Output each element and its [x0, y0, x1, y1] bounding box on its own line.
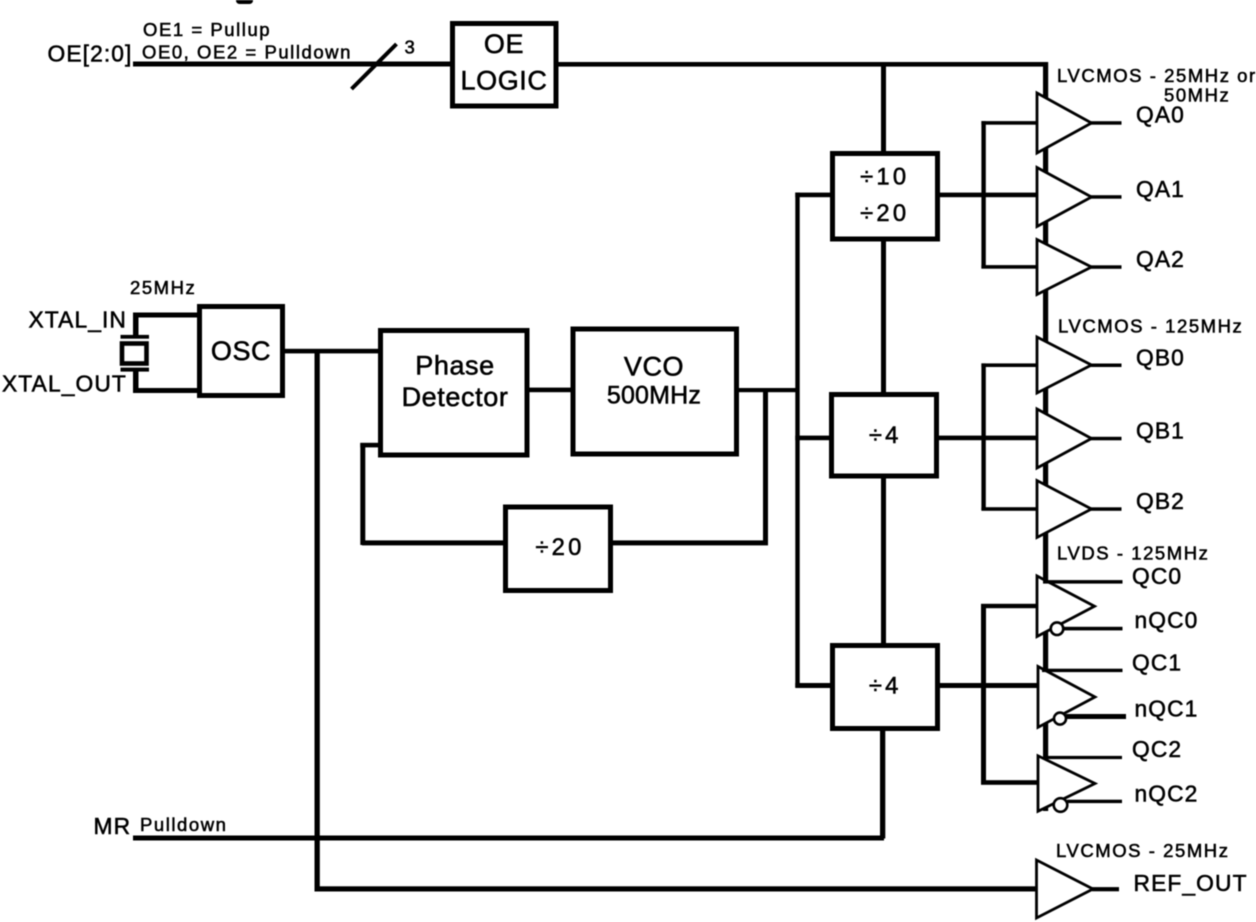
svg-text:XTAL_IN: XTAL_IN	[29, 307, 128, 333]
wire XTAL_IN to OSC	[133, 313, 199, 318]
wire enable vertical to output buffers	[1043, 62, 1048, 811]
svg-text:QC2: QC2	[1132, 736, 1182, 762]
wire MR input	[133, 836, 884, 841]
block divider /4 (QB bank)	[832, 395, 937, 477]
wire QA2 input	[981, 265, 1037, 269]
buffer QB1	[1037, 409, 1092, 468]
wire feedback horizontal left	[362, 540, 505, 545]
wire divider chain vertical 2	[881, 239, 886, 394]
inversion bubble nQC0	[1051, 622, 1064, 635]
wire QA1 output	[1091, 195, 1122, 199]
buffer REF_OUT	[1037, 860, 1094, 918]
wire REF_OUT buffer output	[1092, 887, 1119, 891]
buffer QC1 differential	[1038, 667, 1095, 728]
wire QC2 input	[981, 780, 1038, 785]
svg-text:LOGIC: LOGIC	[460, 66, 547, 96]
block U1 OE LOGIC	[453, 24, 557, 107]
svg-text:QA1: QA1	[1136, 176, 1185, 202]
inversion bubble nQC2	[1054, 798, 1068, 812]
wire nQC0 output	[1063, 627, 1123, 631]
wire VCO output	[737, 388, 798, 392]
buffer QA2	[1037, 240, 1092, 295]
wire OE input bus	[133, 62, 452, 67]
wire OE LOGIC output	[556, 62, 1048, 67]
buffer QC2 differential	[1038, 756, 1095, 812]
svg-text:Pulldown: Pulldown	[140, 814, 227, 835]
wire XTAL_IN drop to crystal	[133, 313, 139, 337]
block OSC oscillator	[200, 307, 283, 396]
wire into divider /4 (QC)	[795, 683, 831, 688]
buffer QA1	[1037, 168, 1092, 227]
svg-text:LVDS - 125MHz: LVDS - 125MHz	[1057, 543, 1209, 564]
wire QA0 output	[1091, 121, 1122, 125]
svg-text:MR: MR	[94, 813, 132, 839]
wire feedback vertical left	[360, 443, 365, 545]
svg-text:3: 3	[405, 37, 417, 58]
svg-text:÷4: ÷4	[869, 673, 902, 700]
wire feedback vertical right	[763, 390, 768, 543]
wire REF branch vertical at x318	[315, 350, 320, 892]
block VCO 500MHz	[573, 329, 737, 454]
wire feedback horizontal right	[611, 540, 768, 545]
wire nQC1 output	[1066, 714, 1126, 719]
block divider /4 (QC bank)	[833, 646, 938, 729]
wire XTAL_OUT to OSC	[133, 388, 199, 393]
svg-text:QC1: QC1	[1132, 650, 1182, 676]
svg-text:Detector: Detector	[402, 382, 509, 412]
wire QC0 input	[981, 604, 1037, 608]
crystal Y1 bottom plate	[121, 368, 150, 372]
wire QC fanout bracket vertical	[981, 604, 986, 785]
cut-off title glyph descender	[236, 0, 253, 4]
wire divider chain vertical 3	[881, 476, 886, 645]
svg-text:OSC: OSC	[211, 336, 271, 366]
bus-width slash	[352, 44, 397, 89]
svg-text:÷20: ÷20	[860, 200, 909, 227]
wire crystal to XTAL_OUT	[133, 371, 139, 390]
svg-text:QA2: QA2	[1136, 246, 1185, 272]
wire VCO distribution vertical	[795, 193, 799, 688]
buffer QC0 differential	[1037, 576, 1095, 637]
wire QB0 output	[1091, 364, 1122, 368]
svg-text:500MHz: 500MHz	[607, 382, 701, 410]
svg-text:Phase: Phase	[415, 351, 495, 381]
svg-text:OE: OE	[484, 29, 524, 59]
wire QA2 output	[1091, 265, 1122, 269]
svg-text:XTAL_OUT: XTAL_OUT	[2, 371, 127, 397]
block divider /10 /20	[833, 154, 938, 240]
wire QC1 true output	[1042, 669, 1123, 672]
svg-text:÷10: ÷10	[860, 164, 909, 191]
svg-text:OE[2:0]: OE[2:0]	[48, 41, 133, 67]
svg-text:VCO: VCO	[624, 352, 684, 382]
wire QB2 output	[1091, 507, 1122, 511]
svg-text:nQC2: nQC2	[1135, 781, 1199, 807]
wire QA0 input	[981, 121, 1037, 125]
wire Phase Detector to VCO	[527, 388, 573, 393]
svg-text:QB0: QB0	[1136, 345, 1185, 371]
svg-text:LVCMOS - 125MHz: LVCMOS - 125MHz	[1058, 315, 1243, 336]
wire /4 output to QC1	[938, 683, 1038, 688]
wire divider chain vertical 4 to MR	[880, 729, 885, 839]
wire OE line branch down to divider chain	[881, 64, 886, 153]
svg-text:LVCMOS - 25MHz: LVCMOS - 25MHz	[1056, 840, 1230, 861]
wire QA fanout bracket vertical	[981, 121, 985, 269]
svg-text:QB1: QB1	[1136, 418, 1185, 444]
svg-text:QB2: QB2	[1136, 488, 1185, 514]
wire QB0 input	[981, 363, 1037, 367]
wire nQC2 output	[1067, 800, 1122, 803]
wire /10/20 output to QA1	[938, 193, 1037, 198]
wire into divider /10 /20	[795, 193, 831, 198]
crystal Y1 top plate	[121, 335, 150, 339]
svg-text:25MHz: 25MHz	[130, 277, 196, 298]
wire feedback stub into Phase Detector	[360, 443, 379, 448]
block Phase Detector	[381, 331, 528, 456]
buffer QB0	[1037, 337, 1092, 393]
svg-text:LVCMOS - 25MHz or: LVCMOS - 25MHz or	[1057, 65, 1256, 86]
svg-text:nQC0: nQC0	[1135, 607, 1199, 633]
inversion bubble nQC1	[1054, 713, 1066, 725]
wire QC0 true output	[1043, 580, 1123, 584]
wire into divider /4 (QB)	[795, 436, 830, 441]
wire REF_OUT horizontal	[315, 886, 1037, 891]
wire QB2 input	[981, 507, 1037, 511]
buffer QB2	[1037, 481, 1092, 538]
wire QC2 true output	[1043, 756, 1122, 759]
svg-text:QC0: QC0	[1132, 563, 1182, 589]
crystal Y1 body	[122, 344, 147, 364]
svg-text:OE0, OE2 = Pulldown: OE0, OE2 = Pulldown	[142, 42, 352, 63]
wire QB1 output	[1091, 437, 1122, 441]
svg-text:nQC1: nQC1	[1135, 696, 1199, 722]
wire QB fanout bracket vertical	[981, 363, 985, 510]
svg-text:QA0: QA0	[1136, 102, 1185, 128]
svg-text:÷4: ÷4	[869, 422, 902, 449]
wire OSC output to Phase Detector	[283, 349, 378, 354]
buffer QA0	[1037, 93, 1092, 153]
block feedback divider /20	[506, 507, 611, 591]
svg-text:OE1 = Pullup: OE1 = Pullup	[143, 19, 271, 40]
svg-text:REF_OUT: REF_OUT	[1134, 870, 1248, 896]
wire /4 output to QB1	[937, 436, 1037, 441]
svg-text:÷20: ÷20	[535, 534, 584, 561]
